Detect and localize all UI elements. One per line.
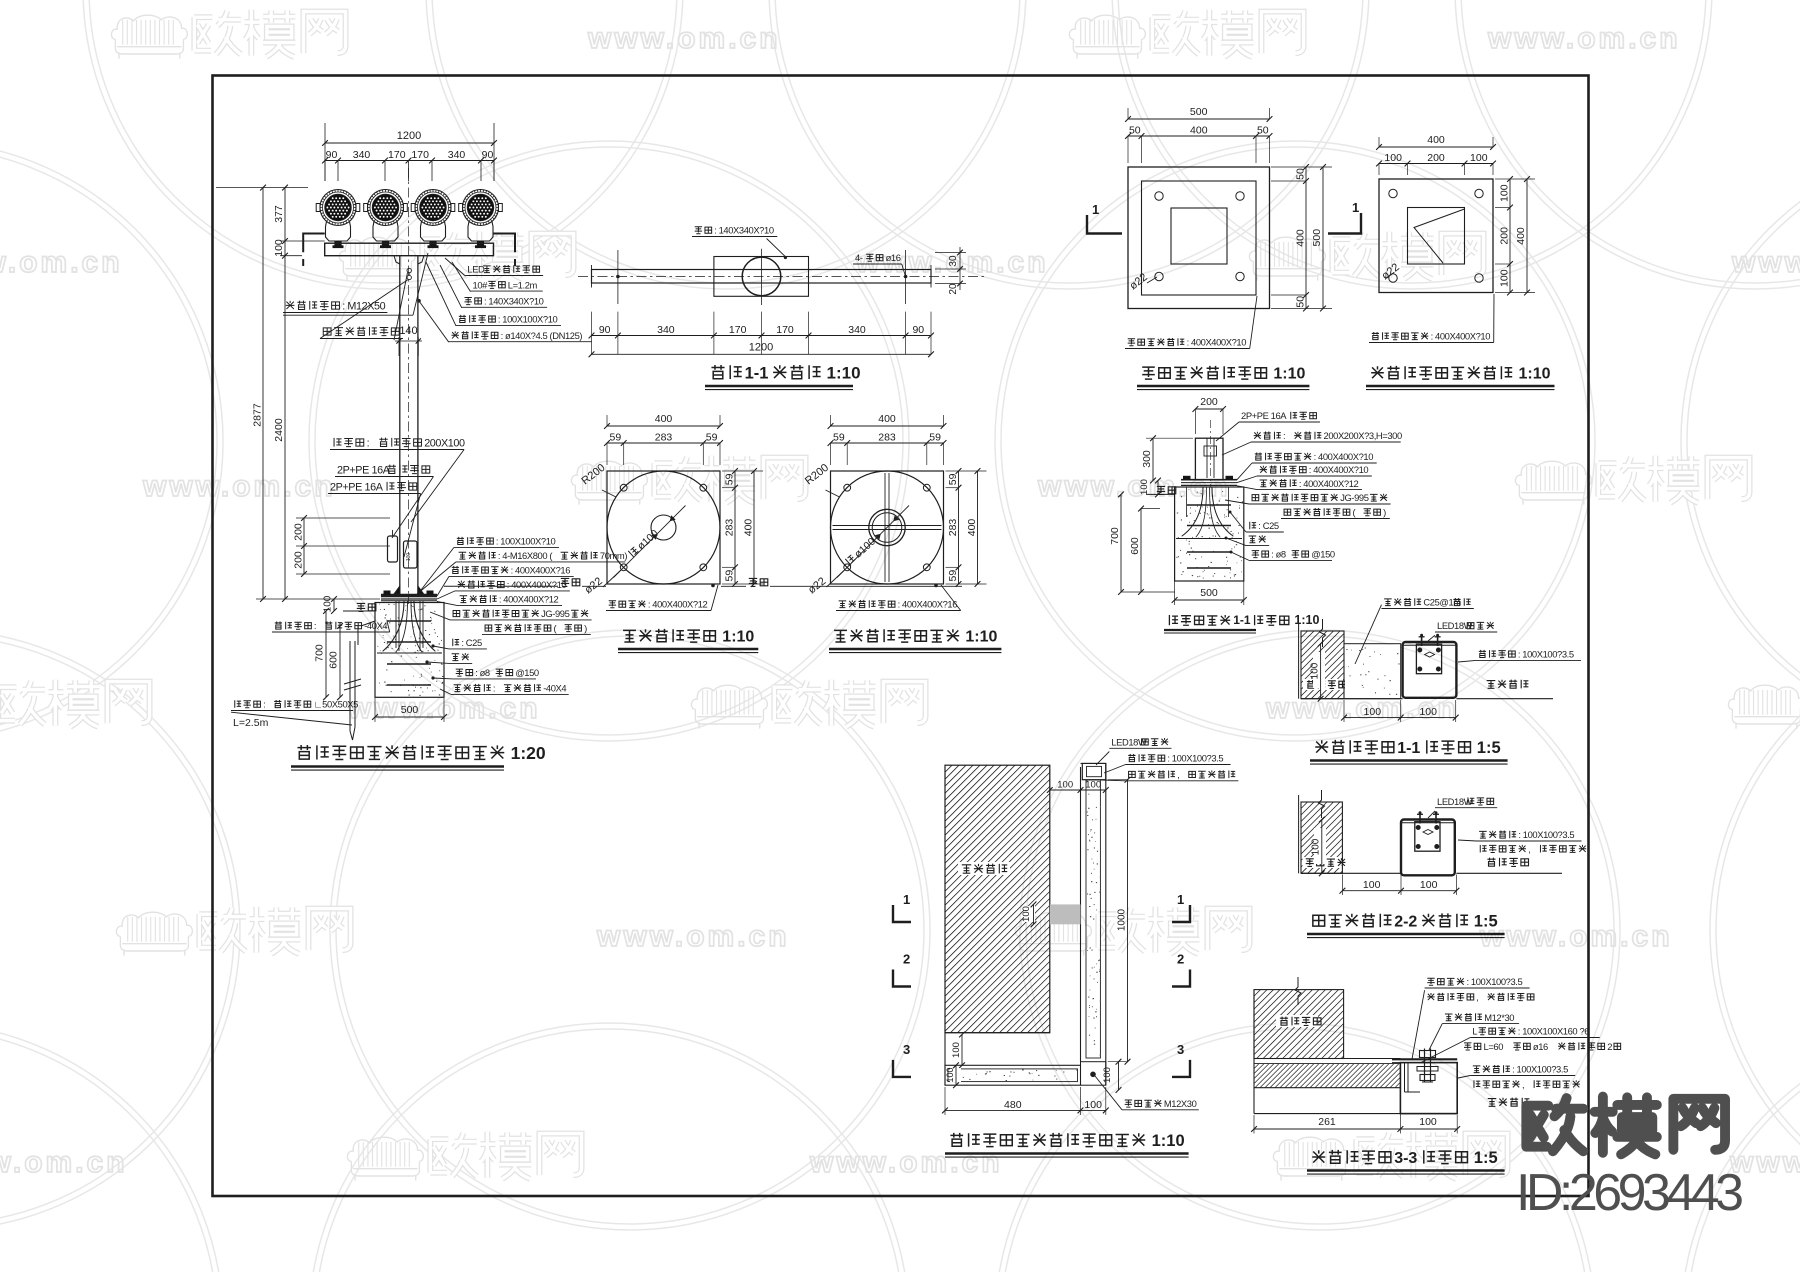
svg-text::: : (263, 699, 265, 710)
svg-text:1: 1 (1352, 200, 1359, 215)
svg-text:1: 1 (903, 892, 910, 907)
svg-text:100: 100 (1419, 706, 1437, 718)
svg-text:2-2: 2-2 (1394, 914, 1417, 931)
svg-text:: 400X400X?12: : 400X400X?12 (648, 599, 708, 610)
svg-text:200: 200 (1499, 227, 1511, 245)
svg-text:: 100X100X160 ?6: : 100X100X160 ?6 (1518, 1026, 1589, 1037)
svg-text:: 100X100?3.5: : 100X100?3.5 (1518, 829, 1574, 840)
svg-text:100: 100 (1499, 184, 1511, 202)
svg-text:M12X30: M12X30 (1164, 1098, 1197, 1109)
svg-text:1: 1 (1177, 892, 1184, 907)
svg-text:400: 400 (1190, 125, 1208, 137)
svg-text:: C25: : C25 (1258, 520, 1279, 531)
svg-text:283: 283 (878, 432, 896, 444)
svg-text:59: 59 (724, 570, 736, 582)
svg-text:1:5: 1:5 (1474, 1149, 1498, 1167)
svg-text:1: 1 (1092, 202, 1099, 217)
svg-text:340: 340 (448, 149, 466, 161)
svg-text:70mm): 70mm) (600, 550, 627, 561)
svg-text:400: 400 (1295, 229, 1307, 247)
svg-text:340: 340 (848, 324, 866, 336)
svg-text:700: 700 (314, 644, 326, 662)
svg-text:@150: @150 (1311, 549, 1335, 560)
svg-text:@150: @150 (515, 667, 539, 678)
svg-text:100: 100 (1363, 879, 1381, 891)
svg-text:JG-995: JG-995 (1340, 492, 1369, 503)
svg-text:1-1: 1-1 (745, 365, 769, 383)
svg-text:2: 2 (1177, 952, 1184, 967)
svg-text:200: 200 (293, 551, 305, 569)
svg-text:100: 100 (1139, 479, 1150, 495)
svg-text:340: 340 (657, 324, 675, 336)
svg-text:,: , (1177, 769, 1179, 780)
svg-text:: 400X400X?16: : 400X400X?16 (898, 599, 958, 610)
svg-text:100: 100 (1084, 1099, 1102, 1111)
svg-text:: 400X400X?12: : 400X400X?12 (1299, 478, 1359, 489)
svg-text:: 140X340X?10: : 140X340X?10 (714, 225, 774, 236)
svg-text:300: 300 (1141, 450, 1153, 468)
svg-text:2877: 2877 (252, 403, 264, 427)
svg-text:2: 2 (1607, 1041, 1612, 1052)
svg-text:L: L (1472, 1026, 1477, 1037)
svg-text:100: 100 (323, 595, 334, 612)
svg-text:-40X4: -40X4 (543, 683, 566, 694)
svg-text:: 400X400X?10: : 400X400X?10 (1187, 337, 1247, 348)
svg-text:59: 59 (947, 473, 959, 485)
svg-text:100: 100 (1310, 662, 1321, 679)
svg-text:340: 340 (353, 149, 371, 161)
svg-text:500: 500 (1311, 229, 1323, 247)
svg-text:: 100X100X?10: : 100X100X?10 (498, 314, 558, 325)
svg-text:100: 100 (945, 1067, 955, 1082)
svg-text:: 140X340X?10: : 140X340X?10 (484, 296, 544, 307)
svg-text:100: 100 (1021, 906, 1032, 922)
svg-text:LED18W: LED18W (1437, 796, 1473, 807)
svg-text:www.om.cn: www.om.cn (1487, 22, 1681, 55)
svg-text:500: 500 (401, 704, 419, 716)
svg-text:1:5: 1:5 (1477, 739, 1501, 757)
svg-text:2P+PE 16A: 2P+PE 16A (337, 465, 391, 477)
svg-text:59: 59 (929, 432, 941, 444)
svg-text:1200: 1200 (749, 342, 773, 354)
svg-text:L=2.5m: L=2.5m (233, 717, 269, 729)
svg-text:100: 100 (1420, 879, 1438, 891)
svg-text:200: 200 (293, 523, 305, 541)
svg-text:: ø8: : ø8 (1271, 549, 1286, 560)
svg-text:377: 377 (273, 205, 285, 223)
svg-text:-40X4: -40X4 (364, 620, 387, 631)
svg-text:www.om.cn: www.om.cn (142, 470, 336, 503)
svg-text:283: 283 (947, 519, 959, 537)
svg-text:: 400X400X?10: : 400X400X?10 (1314, 451, 1374, 462)
svg-text:www.om.cn: www.om.cn (1731, 246, 1800, 279)
svg-text:1-1: 1-1 (1233, 613, 1251, 627)
svg-text:59: 59 (706, 432, 718, 444)
svg-text:): ) (1383, 507, 1386, 518)
svg-text:: 400X400X?10: : 400X400X?10 (1309, 464, 1369, 475)
svg-text:∟50X50X5: ∟50X50X5 (313, 699, 358, 710)
svg-text:100: 100 (1499, 269, 1511, 287)
svg-text:2400: 2400 (273, 418, 285, 442)
svg-text:10#: 10# (473, 279, 489, 290)
svg-text::: : (367, 438, 370, 450)
svg-text:261: 261 (1318, 1116, 1336, 1128)
svg-text:1:10: 1:10 (827, 364, 861, 383)
svg-text:: 100X100?3.5: : 100X100?3.5 (1512, 1064, 1568, 1075)
svg-text:1:10: 1:10 (722, 629, 754, 646)
svg-text:ID:2693443: ID:2693443 (1516, 1164, 1744, 1222)
svg-text:2P+PE 16A: 2P+PE 16A (1241, 410, 1287, 421)
svg-text::: : (1283, 430, 1285, 441)
svg-text:59: 59 (724, 473, 736, 485)
svg-text:ø16: ø16 (1533, 1041, 1548, 1052)
svg-text:: 100X100?3.5: : 100X100?3.5 (1167, 753, 1223, 764)
svg-text:170: 170 (388, 149, 406, 161)
svg-text:170: 170 (776, 324, 794, 336)
svg-text:M12*30: M12*30 (1484, 1012, 1514, 1023)
svg-text:): ) (584, 623, 587, 634)
svg-text:1:5: 1:5 (1474, 913, 1498, 931)
svg-text:90: 90 (482, 149, 494, 161)
svg-text:1000: 1000 (1117, 908, 1128, 931)
svg-text:2P+PE 16A: 2P+PE 16A (330, 482, 384, 494)
svg-text:1:10: 1:10 (1519, 366, 1551, 383)
svg-text:30: 30 (948, 255, 959, 267)
svg-text:90: 90 (326, 149, 338, 161)
svg-text:100: 100 (1419, 1116, 1437, 1128)
svg-text:: ø8: : ø8 (475, 667, 490, 678)
svg-text:100: 100 (273, 239, 285, 257)
svg-text:140: 140 (399, 325, 417, 337)
svg-text:59: 59 (610, 432, 622, 444)
svg-text:1:10: 1:10 (965, 629, 997, 646)
svg-text:90: 90 (599, 324, 611, 336)
svg-text:400: 400 (655, 413, 673, 425)
svg-text:www.om.cn: www.om.cn (0, 246, 123, 279)
svg-text:3: 3 (903, 1042, 910, 1057)
svg-text:170: 170 (411, 149, 429, 161)
svg-text:100: 100 (406, 553, 412, 562)
svg-text:3-3: 3-3 (1394, 1150, 1417, 1167)
svg-text:50: 50 (1129, 125, 1141, 137)
svg-text:100: 100 (1470, 152, 1488, 164)
svg-text:400: 400 (966, 519, 978, 537)
svg-text:20: 20 (948, 283, 959, 295)
svg-text:LED: LED (467, 264, 485, 275)
svg-text:: 100X100X?10: : 100X100X?10 (496, 536, 556, 547)
svg-text:: ø140X?4.5 (DN125): : ø140X?4.5 (DN125) (501, 330, 583, 341)
svg-text:50: 50 (1295, 296, 1307, 308)
svg-text:: 400X400X?10: : 400X400X?10 (1431, 331, 1491, 342)
svg-text:50: 50 (1257, 125, 1269, 137)
svg-text:L=1.2m: L=1.2m (508, 279, 538, 290)
svg-text:www.om.cn: www.om.cn (1479, 920, 1673, 953)
svg-text:100: 100 (951, 1042, 962, 1058)
svg-text:170: 170 (729, 324, 747, 336)
svg-text:: 100X100?3.5: : 100X100?3.5 (1467, 976, 1523, 987)
svg-text:,: , (1528, 843, 1530, 854)
svg-text:JG-995: JG-995 (541, 608, 570, 619)
svg-text:: C25: : C25 (461, 637, 482, 648)
svg-text:283: 283 (724, 519, 736, 537)
svg-text:59: 59 (833, 432, 845, 444)
svg-text:480: 480 (1004, 1099, 1022, 1111)
svg-text::: : (493, 683, 495, 694)
svg-text:ø16: ø16 (886, 252, 901, 263)
svg-text:600: 600 (1129, 537, 1141, 555)
svg-text:: 400X400X?10: : 400X400X?10 (507, 579, 567, 590)
svg-text:100: 100 (1384, 152, 1402, 164)
svg-text:500: 500 (1200, 587, 1218, 599)
svg-text:2: 2 (903, 952, 910, 967)
svg-text:www.om.cn: www.om.cn (596, 920, 790, 953)
svg-text:,: , (1522, 1079, 1524, 1090)
svg-text:50: 50 (1295, 168, 1307, 180)
svg-text:1:10: 1:10 (1273, 366, 1305, 383)
svg-text:59: 59 (947, 570, 959, 582)
svg-text:1:20: 1:20 (511, 743, 546, 763)
svg-text:283: 283 (655, 432, 673, 444)
svg-text:200: 200 (1200, 396, 1218, 408)
svg-text:: 100X100?3.5: : 100X100?3.5 (1518, 649, 1574, 660)
svg-text:400: 400 (1427, 134, 1445, 146)
svg-text:200: 200 (1427, 152, 1445, 164)
svg-text:4-: 4- (855, 252, 863, 263)
svg-text:: 400X400X?16: : 400X400X?16 (511, 565, 571, 576)
svg-text:100: 100 (1102, 1067, 1113, 1083)
svg-text:1-1: 1-1 (1397, 740, 1420, 757)
svg-text:700: 700 (1109, 527, 1121, 545)
svg-text:400: 400 (743, 519, 755, 537)
svg-text:1:10: 1:10 (1152, 1132, 1185, 1150)
svg-text:100: 100 (1085, 780, 1101, 791)
svg-text:100: 100 (1311, 838, 1322, 855)
svg-text:200X200X?3,H=300: 200X200X?3,H=300 (1324, 430, 1402, 441)
svg-text:,: , (1476, 992, 1478, 1003)
svg-text:400: 400 (878, 413, 896, 425)
svg-text:200X100: 200X100 (424, 438, 465, 450)
svg-text::: : (314, 620, 316, 631)
svg-text:3: 3 (1177, 1042, 1184, 1057)
svg-text:90: 90 (912, 324, 924, 336)
svg-text:: 4-M16X800 (: : 4-M16X800 ( (498, 550, 553, 561)
svg-text:600: 600 (328, 651, 340, 669)
svg-text:100: 100 (1364, 706, 1382, 718)
svg-text:: M12X50: : M12X50 (342, 301, 385, 313)
svg-text:100: 100 (1057, 780, 1073, 791)
svg-text:www.om.cn: www.om.cn (0, 1146, 128, 1179)
svg-text:www.om.cn: www.om.cn (587, 22, 781, 55)
svg-text:: 400X400X?12: : 400X400X?12 (499, 594, 559, 605)
svg-text:500: 500 (1190, 106, 1208, 118)
svg-text:L=60: L=60 (1484, 1041, 1504, 1052)
svg-text:400: 400 (1515, 227, 1527, 245)
svg-text:www.om.cn: www.om.cn (809, 1146, 1003, 1179)
svg-text:1200: 1200 (397, 130, 421, 142)
